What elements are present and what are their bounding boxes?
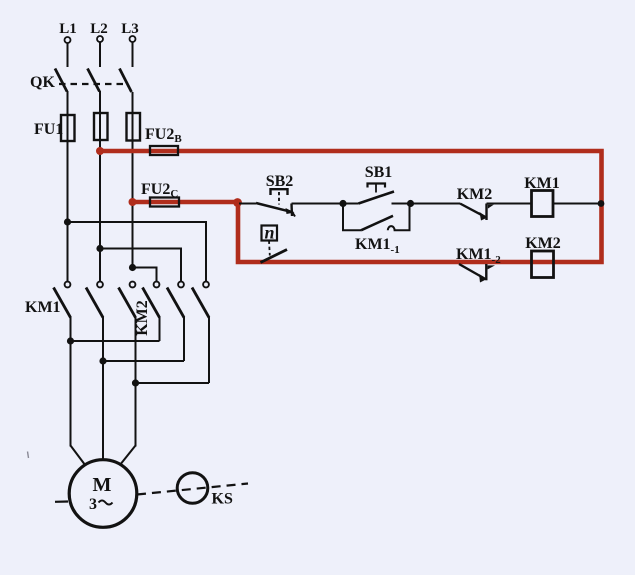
wire QK to FU1 pole3 [132, 92, 134, 268]
svg-text:M: M [93, 474, 112, 496]
svg-text:QK: QK [30, 74, 55, 91]
svg-text:L1: L1 [59, 21, 77, 37]
node A (red, control branch corner) [233, 198, 242, 207]
wire L2 to QK [99, 42, 101, 67]
contactor KM1 main contacts [25, 282, 136, 318]
svg-text:KM1: KM1 [25, 299, 61, 316]
svg-text:KM2: KM2 [457, 186, 493, 203]
shaft dashes left of motor [55, 500, 68, 502]
wire phase1 to KM2 pole6 [68, 222, 207, 281]
node L3 terminal [121, 21, 139, 42]
node crossover1 junction [67, 337, 74, 344]
svg-text:FU1: FU1 [34, 121, 63, 138]
svg-text:L3: L3 [121, 21, 139, 37]
wire crossover pole4 to phase1 [71, 340, 160, 342]
motor M 3~ [69, 460, 137, 528]
node B junction [339, 200, 346, 207]
wire phase3 to KM2 pole4 [133, 268, 157, 282]
fuse FU1 [34, 113, 140, 141]
contact KM2 (NC interlock) [411, 186, 532, 221]
wire crossover pole6 to phase3 [136, 382, 210, 384]
node phase3 tap junction [129, 264, 136, 271]
contact KM1-2 (NC interlock) [456, 246, 501, 283]
fuse FU2_B [145, 126, 182, 155]
wire L1 to QK [67, 43, 69, 67]
red highlighted control wiring (top rail, right rail, bottom rail, left drop) [100, 151, 602, 262]
pushbutton SB2 (NC stop) [239, 173, 295, 217]
wire motor lead left [71, 446, 86, 466]
node D junction (coil to red rail) [598, 200, 605, 207]
wire motor lead right [120, 446, 136, 466]
svg-text:n: n [264, 223, 274, 243]
svg-text:SB2: SB2 [266, 173, 294, 190]
pushbutton SB1 (NO start) [343, 164, 411, 204]
speed-relay contact KS (n box, NO) [261, 223, 288, 263]
contactor KM2 main contacts [134, 282, 209, 336]
svg-text:KM2: KM2 [134, 300, 151, 336]
wire KM2 pole6 down [208, 317, 210, 384]
stray mark [28, 452, 29, 459]
svg-text:KM2: KM2 [525, 235, 561, 252]
node L2 terminal [90, 21, 108, 42]
wire KM1 pole3 down to motor [135, 317, 137, 447]
wire QK to FU1 pole1 [67, 91, 69, 281]
coil KM1 [524, 175, 601, 217]
svg-text:SB1: SB1 [365, 164, 393, 181]
wire QK to FU1 pole2 [99, 91, 101, 281]
node phase1 tap junction [64, 218, 71, 225]
node tap on L3 (red) [129, 198, 137, 206]
node L1 terminal [59, 21, 77, 43]
svg-text:L2: L2 [90, 21, 108, 37]
wire KM1 pole2 down to motor [102, 317, 104, 461]
node tap on L2 (red) [96, 147, 104, 155]
wire phase2 to KM2 pole5 [100, 249, 181, 282]
shaft dashed line motor to KS [137, 484, 248, 495]
wire crossover pole5 to phase2 [103, 360, 184, 362]
fuse FU2_C [141, 181, 179, 207]
coil KM2 [525, 235, 561, 278]
wire KM2 pole5 down [183, 317, 185, 362]
svg-text:KS: KS [212, 491, 233, 508]
speed relay KS [177, 473, 233, 508]
contact KM1-1 (seal-in, NO) [343, 204, 410, 257]
node crossover3 junction [132, 379, 139, 386]
wire KM1 pole1 down to motor [70, 317, 72, 447]
wire L3 to QK [132, 42, 134, 67]
wire KM2 pole4 down [159, 317, 161, 342]
node crossover2 junction [99, 357, 106, 364]
switch QK [30, 69, 132, 93]
wire SB2 to node B [292, 203, 344, 205]
node C junction [407, 200, 414, 207]
svg-text:3: 3 [89, 496, 97, 513]
node phase2 tap junction [96, 245, 103, 252]
